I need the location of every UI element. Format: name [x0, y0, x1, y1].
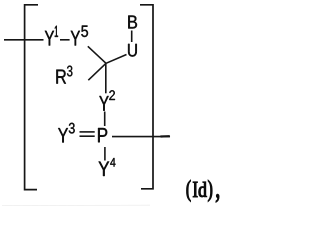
wire left attachment bond	[4, 39, 44, 41]
wire bond Y2-P	[104, 112, 106, 127]
left bracket	[25, 5, 38, 190]
wire bond Y1-Y5	[60, 39, 70, 41]
wire bond B-U	[131, 31, 133, 43]
node B	[128, 16, 137, 29]
wire double bond Y3=P lower	[80, 135, 95, 137]
node Y1	[45, 31, 54, 46]
wire bond P-Y4	[104, 147, 106, 161]
formula label (Id),	[187, 180, 219, 202]
node Y3	[58, 128, 68, 142]
wire double bond Y3=P upper	[80, 131, 95, 133]
wire bond P-right attachment	[112, 136, 170, 138]
right bracket	[140, 5, 153, 189]
node R3	[56, 70, 66, 84]
node Y5	[71, 31, 80, 46]
wire bond R3-C vertex	[88, 63, 106, 80]
node Y2	[99, 96, 108, 111]
wire bond C vertex-Y2	[105, 63, 107, 93]
node U	[128, 44, 137, 57]
wire bond C vertex-U	[106, 55, 127, 64]
node Y4	[99, 162, 110, 177]
wire bond Y5-C vertex	[88, 46, 106, 63]
atom P	[98, 128, 107, 142]
